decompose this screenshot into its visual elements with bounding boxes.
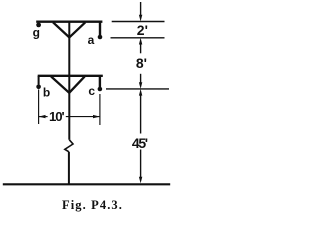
10ft arrow left	[39, 115, 46, 118]
8ft arrowhead down (above line3)	[139, 82, 142, 89]
dim extension line level 1 (crossarm top)	[112, 21, 165, 23]
10ft extension line right	[99, 94, 101, 125]
dim extension line level 2 (conductor a)	[111, 37, 165, 39]
svg-text:8': 8'	[136, 55, 147, 71]
pole upper section	[68, 22, 70, 140]
svg-text:2': 2'	[137, 22, 148, 38]
45ft arrowhead up (below line3)	[139, 89, 142, 96]
conductor c drop tick	[99, 76, 101, 87]
10ft arrow right	[93, 115, 100, 118]
conductor g dot	[36, 23, 41, 28]
conductor b drop tick	[38, 76, 40, 85]
svg-text:b: b	[43, 86, 50, 100]
svg-text:10': 10'	[49, 109, 65, 124]
45ft arrowhead down (at ground)	[139, 177, 142, 184]
8ft dim shaft lower	[140, 74, 142, 85]
top crossarm bar	[36, 21, 102, 23]
2ft dim arrow shaft top	[140, 2, 142, 16]
V-brace top crossarm	[53, 22, 85, 37]
svg-text:a: a	[88, 33, 95, 47]
svg-text:g: g	[33, 26, 40, 40]
10ft extension line left	[38, 90, 40, 125]
conductor a drop tick	[99, 22, 101, 35]
break symbol	[65, 140, 73, 152]
10ft dimension line right segment	[66, 116, 100, 118]
2ft arrowhead down	[139, 15, 142, 22]
conductor a dot	[98, 35, 103, 40]
dim extension line level 3 (conductor c)	[106, 88, 169, 90]
conductor c dot	[98, 87, 103, 92]
ground line	[3, 183, 170, 185]
10ft dimension line left segment	[39, 116, 48, 118]
conductor b dot	[36, 85, 41, 90]
pole lower section	[68, 152, 70, 185]
svg-text:c: c	[88, 84, 95, 98]
8ft dim shaft upper	[140, 44, 142, 54]
second crossarm bar	[38, 75, 103, 77]
8ft arrowhead up (below line2)	[139, 38, 142, 45]
45ft dim shaft lower	[140, 150, 142, 179]
svg-text:45': 45'	[132, 135, 148, 151]
V-brace second crossarm	[51, 76, 85, 92]
svg-text:Fig. P4.3.: Fig. P4.3.	[62, 198, 123, 212]
45ft dim shaft upper	[140, 95, 142, 134]
